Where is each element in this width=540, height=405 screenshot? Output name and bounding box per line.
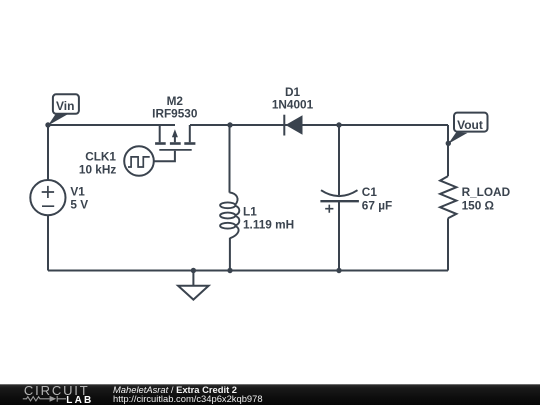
wire L1 branch top [229,125,231,193]
svg-text:http://circuitlab.com/c34p6x2k: http://circuitlab.com/c34p6x2kqb978 [113,393,263,404]
p-mosfet M2 [155,125,195,150]
svg-text:150 Ω: 150 Ω [462,198,494,212]
wire left rail top [47,125,49,180]
svg-text:CLK1: CLK1 [85,149,116,163]
wire right rail top [447,125,449,176]
wire top rail left [48,124,175,126]
svg-text:5 V: 5 V [70,198,88,212]
node Vout dot [446,141,451,146]
wire CLK1 to gate [154,151,175,161]
resistor R_LOAD [440,176,456,218]
wire C1 branch bottom [338,201,340,271]
node Vout flag [448,113,487,144]
svg-text:IRF9530: IRF9530 [152,107,198,121]
wire top rail right [190,124,448,126]
diode D1 [284,115,302,136]
wire bottom rail [48,270,448,272]
svg-text:Vout: Vout [457,118,483,132]
capacitor C1 [320,190,359,213]
node ground junction [191,268,196,273]
wire C1 branch top [338,125,340,195]
node Vin dot [45,122,50,127]
svg-text:C1: C1 [362,185,378,199]
node Vin flag [48,94,79,125]
inductor L1 [220,192,239,238]
node L1 top junction [227,122,232,127]
logo squiggle [23,396,66,402]
svg-text:10 kHz: 10 kHz [79,163,116,177]
wire right rail bottom [447,218,449,270]
svg-text:LAB: LAB [66,395,93,405]
wire left rail bottom [47,215,49,270]
svg-text:Vin: Vin [56,99,74,113]
node L1 bottom junction [227,268,232,273]
clock source CLK1 [124,146,154,176]
svg-text:V1: V1 [70,184,85,198]
svg-text:1N4001: 1N4001 [272,98,314,112]
svg-text:R_LOAD: R_LOAD [462,185,511,199]
ground [178,271,209,300]
node C1 top junction [336,122,341,127]
svg-text:67 µF: 67 µF [362,199,392,213]
svg-text:1.119 mH: 1.119 mH [243,218,294,232]
wire L1 branch bottom [229,238,231,271]
node C1 bottom junction [336,268,341,273]
voltage source V1 [30,180,65,215]
